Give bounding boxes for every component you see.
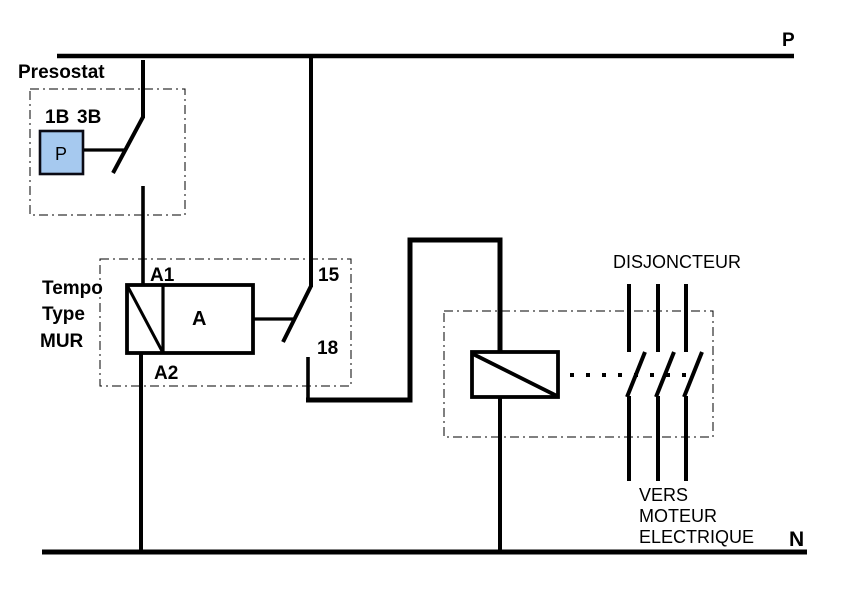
svg-text:P: P: [55, 144, 67, 164]
N bus (neutral line): [42, 550, 807, 555]
svg-text:MOTEUR: MOTEUR: [639, 506, 717, 526]
svg-text:A1: A1: [150, 265, 175, 286]
wire: P bus down to presostat switch: [141, 60, 145, 118]
wire: 18 to contactor coil (routing): [306, 240, 500, 400]
svg-text:P: P: [782, 30, 795, 51]
svg-text:MUR: MUR: [40, 331, 84, 352]
contactor pole 2: [656, 284, 674, 481]
wire: sensor box to switch blade: [84, 148, 124, 151]
svg-text:18: 18: [317, 338, 338, 359]
svg-text:ELECTRIQUE: ELECTRIQUE: [639, 527, 754, 547]
svg-text:Tempo: Tempo: [42, 278, 103, 299]
wire: contactor coil down to N bus: [498, 396, 502, 552]
contactor pole 3: [684, 284, 702, 481]
svg-text:DISJONCTEUR: DISJONCTEUR: [613, 252, 741, 272]
wire: P bus down to timer contact 15: [309, 58, 313, 287]
svg-text:3B: 3B: [77, 107, 101, 128]
wire: timer A2 down to N bus: [139, 353, 143, 552]
presostat switch blade (pressure contact): [113, 117, 143, 173]
contactor coil (box with diagonal): [472, 352, 558, 397]
svg-text:1B: 1B: [45, 107, 69, 128]
wire: presostat switch to timer coil A1: [141, 186, 145, 286]
presostat enclosure (dash-dot box): [30, 89, 185, 215]
svg-text:15: 15: [318, 265, 340, 286]
svg-text:A2: A2: [154, 363, 178, 384]
svg-text:A: A: [192, 308, 206, 330]
timer enclosure (dash-dot box): [100, 259, 351, 386]
timer coil A (box with diagonal): [127, 285, 253, 353]
mechanical linkage (dotted): [570, 373, 694, 377]
wire: timer coil to contact blade: [253, 317, 293, 320]
timer contact 15-18 blade: [283, 286, 311, 342]
svg-text:N: N: [789, 528, 804, 551]
svg-text:VERS: VERS: [639, 485, 688, 505]
wire: contact 18 terminal down: [306, 357, 310, 400]
contactor enclosure (dash-dot box): [444, 311, 713, 437]
svg-text:Type: Type: [42, 304, 85, 325]
P bus (phase line): [57, 54, 794, 59]
contactor pole 1: [627, 284, 645, 481]
pressure sensor box P: [40, 131, 83, 174]
svg-text:Presostat: Presostat: [18, 62, 105, 83]
